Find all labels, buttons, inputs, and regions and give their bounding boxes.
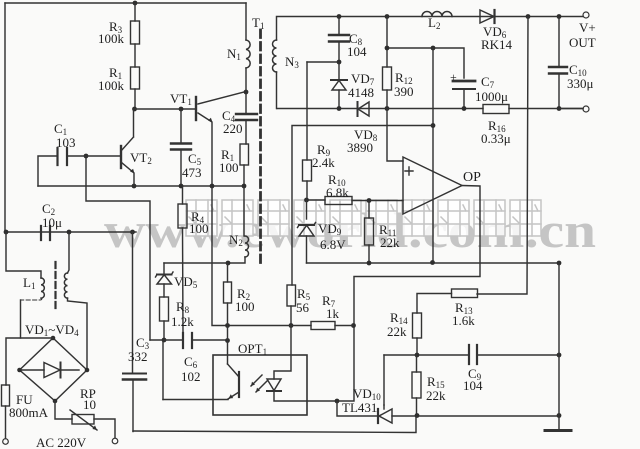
svg-text:1000μ: 1000μ: [475, 89, 508, 104]
node R12 bottom: [385, 106, 390, 111]
wire R9 column upper: [306, 62, 308, 160]
wire bridge to RP: [55, 401, 72, 419]
svg-text:100k: 100k: [98, 31, 125, 46]
wire secondary mid rail y109: [277, 108, 583, 110]
svg-text:22k: 22k: [387, 324, 407, 339]
node y355 right: [557, 353, 562, 358]
svg-text:L2: L2: [428, 15, 440, 31]
capacitor C6: [183, 333, 192, 348]
svg-text:V+: V+: [579, 20, 596, 35]
node VT1 emitter: [210, 184, 215, 189]
capacitor C3: [123, 373, 146, 375]
op-amp supply drop wire: [432, 48, 434, 263]
wire TL431 anode out: [392, 415, 559, 417]
node C3 column top: [130, 230, 135, 235]
svg-text:N1: N1: [227, 46, 241, 62]
wire left vertical: [4, 3, 6, 232]
diode VD5 zener: [163, 263, 165, 274]
svg-text:VT1: VT1: [170, 91, 192, 107]
node bridge left: [17, 368, 22, 373]
wire secondary common y263: [307, 262, 560, 264]
svg-text:VT2: VT2: [130, 150, 152, 166]
svg-text:4148: 4148: [348, 85, 374, 100]
watermark chinese company glyph blocks: [186, 200, 541, 236]
node R1 bottom: [132, 107, 137, 112]
node N2-R2 junction: [226, 261, 231, 266]
capacitor C1: [58, 148, 68, 165]
resistor R3: [134, 3, 136, 21]
node LED cathode / TL431: [335, 399, 340, 404]
node R9 bottom: [304, 198, 309, 203]
svg-text:VD5: VD5: [174, 274, 198, 290]
terminal OUT low: [583, 106, 589, 112]
opto emitter arrow: [229, 394, 234, 398]
svg-text:22k: 22k: [426, 388, 446, 403]
terminal AC left: [3, 439, 9, 445]
wire L1 right bottom to bridge: [68, 298, 88, 370]
capacitor C10: [558, 17, 560, 68]
wire N3 bottom lead: [276, 72, 278, 109]
node C5 top: [179, 107, 184, 112]
svg-text:3890: 3890: [347, 140, 373, 155]
svg-text:L1: L1: [23, 275, 35, 291]
wire sample mid y355: [384, 354, 559, 356]
resistor R4: [182, 186, 184, 204]
svg-text:C6: C6: [184, 354, 198, 370]
wire VT1 base: [135, 108, 197, 110]
resistor R14: [413, 313, 422, 338]
diode VD7: [338, 62, 340, 80]
svg-text:100: 100: [235, 299, 255, 314]
svg-text:800mA: 800mA: [9, 405, 49, 420]
node R11 bottom: [367, 261, 372, 266]
resistor R9: [303, 160, 312, 181]
svg-text:1.6k: 1.6k: [452, 313, 475, 328]
svg-text:100: 100: [219, 160, 239, 175]
wire N1 top lead: [245, 3, 247, 40]
wire N2 top lead: [243, 186, 245, 236]
wire R8 node down: [162, 340, 164, 400]
svg-text:56: 56: [296, 300, 310, 315]
node R11 top: [367, 198, 372, 203]
capacitor C7: [453, 80, 475, 83]
node ground column top: [557, 106, 562, 111]
transformer T1 winding N3: [273, 40, 277, 72]
wire secondary top rail: [277, 17, 584, 41]
wire feedback to C6: [150, 339, 183, 341]
wire N2 bottom lead: [228, 257, 245, 263]
svg-text:2.4k: 2.4k: [312, 155, 335, 170]
resistor R10: [307, 199, 326, 201]
node op column bottom: [430, 260, 435, 265]
wire opto emitter out: [163, 399, 228, 401]
op-amp plus sign: [405, 167, 413, 175]
resistor R12: [386, 17, 388, 68]
resistor R2: [227, 263, 229, 282]
svg-text:RK14: RK14: [481, 37, 513, 52]
node R5 bottom: [289, 323, 294, 328]
svg-text:103: 103: [56, 135, 76, 150]
node C2 left: [4, 230, 9, 235]
VT1 emitter arrow: [208, 118, 213, 123]
resistor R1 100: [240, 144, 249, 165]
resistor R13: [452, 289, 478, 298]
wire y125 to R5: [292, 126, 433, 286]
node VD7 bottom: [337, 106, 342, 111]
node R8 bottom: [162, 338, 167, 343]
node C7 bottom: [462, 106, 467, 111]
svg-text:OP: OP: [463, 170, 481, 185]
svg-text:OUT: OUT: [569, 35, 596, 50]
wire C3 column: [132, 232, 134, 373]
node R12 top: [385, 14, 390, 19]
resistor R8: [160, 297, 169, 321]
node R15 bottom: [415, 413, 420, 418]
opto light arrows: [251, 375, 267, 392]
svg-text:OPT1: OPT1: [238, 341, 267, 357]
opto OPT1 box: [213, 355, 307, 415]
op-amp output wire: [337, 186, 480, 402]
wire C2 rail: [5, 231, 136, 233]
terminal AC right: [112, 438, 118, 444]
svg-text:R8: R8: [176, 299, 190, 315]
svg-text:N3: N3: [285, 54, 299, 70]
svg-text:6.8k: 6.8k: [326, 185, 349, 200]
svg-text:390: 390: [394, 84, 414, 99]
wire L1 right top: [68, 232, 70, 273]
svg-text:0.33μ: 0.33μ: [481, 131, 511, 146]
resistor R15: [412, 372, 421, 398]
svg-text:10μ: 10μ: [42, 215, 62, 230]
node R2 bottom junction: [225, 323, 230, 328]
svg-text:1k: 1k: [326, 306, 340, 321]
inductor L1 left winding: [41, 278, 44, 298]
wire L1 tap vertical: [20, 300, 22, 338]
svg-text:102: 102: [181, 369, 201, 384]
transformer T1 core: [259, 30, 262, 263]
svg-text:1.2k: 1.2k: [171, 314, 194, 329]
node C5 bottom: [179, 184, 184, 189]
wire emitter bus y186: [38, 185, 244, 187]
node bridge bottom: [53, 399, 58, 404]
wire ground column: [558, 263, 560, 429]
transistor VT1: [195, 97, 197, 120]
transformer T1 winding N1: [246, 40, 250, 68]
diode VD8: [357, 102, 359, 116]
ground symbol: [545, 429, 571, 432]
capacitor C2: [41, 226, 50, 240]
svg-text:VD1~VD4: VD1~VD4: [25, 322, 79, 338]
wire C1 left: [38, 156, 57, 186]
node VT2 base / C1: [84, 154, 89, 159]
wire C1 right to base: [67, 155, 121, 157]
capacitor C5: [180, 109, 182, 143]
wire TL431 ref: [383, 355, 385, 405]
node C7 link: [431, 46, 436, 51]
node C6-opto junction: [225, 338, 230, 343]
svg-text:+: +: [450, 70, 457, 84]
opto phototransistor: [238, 372, 240, 397]
wire C6 right: [192, 339, 228, 341]
svg-text:C7: C7: [481, 74, 495, 90]
fuse FU: [2, 385, 10, 406]
wire TL431 cathode drop: [337, 401, 378, 416]
node ground join: [557, 413, 562, 418]
wire R13 supply column: [477, 17, 528, 295]
wire to out terminal: [559, 108, 583, 110]
node C8 bottom: [337, 60, 342, 65]
node bridge right: [85, 368, 90, 373]
node rail-R3 junction: [133, 1, 138, 6]
opto LED: [267, 379, 281, 391]
resistor R7: [311, 322, 335, 330]
diode VD6: [480, 10, 494, 23]
capacitor C8: [338, 17, 340, 36]
node R12-C7 link: [385, 46, 390, 51]
node rail-R13 column: [526, 14, 531, 19]
wire opto collector column: [212, 186, 311, 326]
TL431 VD10: [377, 409, 379, 423]
inductor L2: [422, 12, 452, 17]
wire L1 left bottom link: [21, 298, 42, 300]
wire C7 top link: [387, 48, 464, 78]
svg-text:22k: 22k: [380, 235, 400, 250]
wire N1 bottom to C4: [245, 68, 247, 114]
op-amp + input wire: [387, 109, 403, 162]
potentiometer RP: [72, 415, 94, 425]
node C2 right: [67, 230, 72, 235]
resistor R5: [287, 285, 296, 306]
transformer L1 core: [54, 262, 56, 312]
wire RP to terminal: [94, 419, 115, 438]
node R7 right: [351, 323, 356, 328]
node bridge top: [51, 336, 56, 341]
svg-text:330μ: 330μ: [567, 76, 594, 91]
bridge inner diode: [20, 369, 80, 371]
VT2 emitter arrow: [130, 169, 134, 174]
wire bottom bus: [133, 416, 416, 433]
transformer T1 winding N2: [245, 236, 249, 257]
diode VD9 zener: [306, 200, 308, 219]
terminal V+: [583, 12, 589, 18]
capacitor C9: [469, 345, 477, 364]
resistor R16: [483, 105, 509, 114]
node R1-100 bottom: [242, 184, 247, 189]
svg-text:332: 332: [128, 349, 148, 364]
node R14 bottom: [415, 353, 420, 358]
RP arrow head: [92, 425, 97, 430]
svg-text:T1: T1: [252, 15, 264, 31]
svg-text:AC 220V: AC 220V: [36, 435, 87, 449]
wire C8 to R9 column: [307, 61, 339, 63]
svg-text:100k: 100k: [98, 78, 125, 93]
svg-text:6.8V: 6.8V: [320, 237, 346, 252]
capacitor C4: [236, 114, 257, 120]
resistor R11: [368, 201, 370, 219]
resistor R1 100k: [131, 67, 140, 89]
svg-text:104: 104: [463, 378, 483, 393]
node C8 top: [337, 14, 342, 19]
wire bridge top to fuse: [6, 338, 53, 385]
node op link y125: [431, 123, 436, 128]
svg-text:10: 10: [83, 397, 96, 412]
wire L1 left top: [6, 232, 41, 278]
bridge rectifier VD1~VD4: [20, 338, 88, 401]
svg-text:104: 104: [347, 44, 367, 59]
svg-text:100: 100: [189, 221, 209, 236]
op-amp OP: [403, 157, 462, 214]
svg-text:473: 473: [182, 165, 202, 180]
node VT2 emitter: [132, 184, 137, 189]
inductor L1 right winding: [64, 273, 67, 298]
node C10 top: [557, 14, 562, 19]
transistor VT2: [120, 146, 122, 168]
wire top-left rail: [5, 2, 246, 4]
svg-text:220: 220: [223, 121, 243, 136]
wire VD5 to N2: [164, 262, 228, 264]
wire base feedback path: [86, 156, 150, 340]
node VT1 collector / N1 bottom: [244, 90, 249, 95]
node common-ground column: [557, 261, 562, 266]
svg-text:TL431: TL431: [342, 400, 377, 415]
